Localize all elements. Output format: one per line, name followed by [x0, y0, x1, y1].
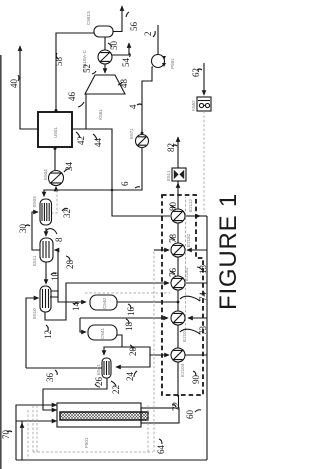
furnace grey dashed — [32, 406, 34, 452]
column E541 — [102, 358, 111, 378]
svg-text:E510: E510 — [32, 308, 37, 319]
svg-text:60: 60 — [185, 410, 195, 420]
grey dashed from K552 — [203, 111, 205, 213]
svg-text:80: 80 — [168, 202, 178, 212]
exchanger E511 (bowtie box) — [172, 168, 186, 181]
grey dashed from C540 — [85, 292, 170, 294]
utility stub into E2182 — [187, 249, 207, 251]
compressor K581 — [85, 75, 125, 94]
svg-text:C541: C541 — [100, 328, 105, 339]
utility bracket 73 — [188, 317, 207, 319]
svg-text:2: 2 — [143, 32, 153, 37]
wire stream 54 — [112, 43, 129, 55]
wire E541 feed — [104, 347, 122, 355]
drum C541 — [88, 325, 117, 340]
svg-text:K581: K581 — [98, 109, 103, 120]
wire stream 58 — [56, 33, 94, 112]
exchanger E2112 — [171, 209, 185, 223]
wire stream 62 — [203, 63, 205, 95]
svg-text:46: 46 — [67, 92, 77, 102]
node junction 44/header — [111, 189, 114, 192]
svg-text:58: 58 — [54, 57, 64, 67]
exchanger E2181 — [171, 276, 185, 290]
svg-text:32: 32 — [62, 209, 72, 218]
svg-text:C581S: C581S — [86, 11, 91, 25]
right-side recycle line 60 — [206, 216, 208, 460]
feed to E2182 from grey header — [154, 249, 169, 251]
svg-text:C540: C540 — [102, 298, 107, 309]
scan edge artifact — [0, 55, 2, 469]
svg-text:E503: E503 — [32, 196, 37, 207]
svg-text:42: 42 — [76, 136, 86, 145]
svg-text:K552: K552 — [191, 100, 196, 111]
pump P581 — [152, 55, 165, 68]
svg-text:12: 12 — [43, 330, 53, 339]
wire stream 40 — [20, 46, 38, 129]
wire streams 42/44 — [72, 129, 170, 216]
utility bracket 74 — [186, 282, 207, 284]
column E511 — [40, 238, 53, 262]
node junction E571 top — [141, 132, 144, 135]
wire stream 56 — [113, 6, 122, 32]
cooler E581 — [98, 50, 112, 64]
column E503 — [40, 199, 52, 225]
svg-text:FIGURE 1: FIGURE 1 — [215, 193, 240, 310]
grey dashed utility trace — [185, 197, 187, 330]
exchanger E504 — [49, 171, 64, 186]
svg-text:36: 36 — [45, 373, 55, 383]
exchanger train line — [177, 181, 179, 397]
wire stream 72 — [178, 395, 180, 408]
svg-text:76: 76 — [168, 268, 178, 278]
wire stream 4 — [142, 67, 153, 133]
furnace bottom main line — [16, 459, 207, 461]
wire stream 28 (E510 overhead to E511) — [50, 250, 58, 297]
wire U501 to E504 — [54, 147, 56, 170]
exchanger E2104 — [171, 348, 185, 362]
svg-text:64: 64 — [156, 445, 166, 455]
svg-text:E571: E571 — [129, 128, 134, 139]
exchanger E571 — [136, 135, 149, 148]
wire stream 10 — [45, 262, 47, 284]
svg-text:44: 44 — [93, 138, 103, 148]
svg-text:E2181: E2181 — [184, 267, 189, 281]
wire 32 dashed — [52, 190, 57, 213]
svg-text:78: 78 — [168, 234, 178, 244]
wire stream 20 — [117, 335, 169, 355]
column E510 — [40, 286, 51, 312]
vessel C581S — [94, 26, 113, 37]
wire into E504 from header — [55, 187, 57, 191]
wire stream 16 — [117, 301, 178, 303]
svg-text:4: 4 — [128, 104, 138, 109]
svg-text:E541: E541 — [96, 364, 101, 375]
svg-text:E511: E511 — [166, 170, 171, 181]
exchanger E2103 — [171, 311, 185, 325]
svg-text:E511: E511 — [32, 255, 37, 266]
wire stream 82 — [177, 137, 179, 168]
wire stream 2 — [157, 25, 159, 54]
wire stream 90 — [185, 354, 207, 356]
reactor E501 — [57, 403, 141, 427]
svg-text:P581: P581 — [170, 58, 175, 69]
wire C541 feed — [80, 318, 86, 332]
drum C540 — [90, 295, 117, 310]
furnace line A — [16, 405, 57, 460]
wire feed E510 / furnace line B — [26, 298, 39, 368]
reactor outlet header — [141, 408, 179, 423]
svg-text:E504: E504 — [43, 169, 48, 180]
wire stream 36 (to E541 top) — [26, 367, 102, 369]
svg-text:52: 52 — [82, 64, 92, 73]
grey dashed long header — [153, 250, 155, 452]
svg-text:40: 40 — [9, 79, 19, 89]
wire stream 18 — [80, 317, 168, 319]
wire stream 46 — [85, 94, 87, 129]
unit U501 — [38, 112, 72, 147]
svg-text:56: 56 — [129, 22, 139, 32]
svg-text:54: 54 — [121, 58, 131, 68]
wire stream 22 / 26 — [43, 378, 107, 410]
svg-text:34: 34 — [64, 162, 74, 172]
svg-text:F501: F501 — [84, 437, 89, 448]
wire stream 12 (E510 bottoms to E2181) — [45, 283, 169, 320]
wire 50 — [104, 37, 106, 50]
svg-text:8: 8 — [54, 237, 64, 242]
svg-text:E2182: E2182 — [186, 233, 191, 247]
wire stream 8 — [45, 228, 47, 236]
wire 44 through E2112 to recycle — [186, 215, 200, 217]
svg-text:E2112: E2112 — [188, 199, 193, 212]
exchanger E2182 — [171, 243, 185, 257]
svg-text:E2104: E2104 — [180, 363, 185, 377]
battery-limit dashed box 13 — [162, 195, 203, 395]
svg-text:82: 82 — [166, 143, 176, 152]
svg-text:22: 22 — [111, 385, 121, 394]
wire stream 14 — [51, 291, 86, 302]
wire stream 52 — [104, 64, 106, 73]
wire stream 30 — [32, 212, 40, 250]
arrows on train — [177, 348, 179, 351]
svg-text:U501: U501 — [53, 127, 58, 138]
svg-text:6: 6 — [120, 181, 130, 186]
wire stream 24 — [116, 355, 150, 367]
expander K552 — [197, 97, 211, 111]
wire stream 6 (E503 overhead header) — [44, 148, 142, 197]
